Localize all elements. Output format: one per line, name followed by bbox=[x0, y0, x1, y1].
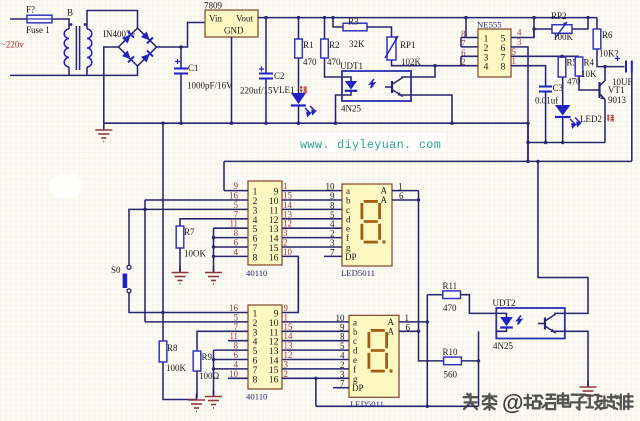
transistor VT1 bbox=[598, 82, 600, 98]
wire RP2 right lead bbox=[572, 18, 588, 29]
svg-text:R7: R7 bbox=[184, 227, 195, 237]
switch S0 bbox=[111, 265, 131, 293]
svg-text:A: A bbox=[381, 186, 388, 196]
wire 40110 second pin10 stub bbox=[228, 377, 248, 379]
wire 40110 second to display row 7 bbox=[282, 377, 349, 379]
wire bottom rail bbox=[316, 405, 479, 407]
wire ground rail bbox=[104, 122, 528, 124]
wire R3 left lead bbox=[333, 18, 343, 27]
node output H1 junction bbox=[526, 160, 529, 163]
svg-text:1: 1 bbox=[512, 56, 516, 66]
ic U3 40110 second body bbox=[248, 305, 282, 389]
ground symbol UDT2 bbox=[580, 381, 597, 399]
bridge diode D4 bbox=[141, 51, 153, 63]
wire primary bottom lead bbox=[68, 67, 70, 75]
wire LED2 bottom lead bbox=[562, 118, 564, 143]
svg-text:R2: R2 bbox=[329, 40, 340, 50]
node R10 right junction bbox=[477, 359, 480, 362]
optocoupler U UDT1 box bbox=[342, 71, 411, 101]
node pin6 riser junction bbox=[417, 330, 420, 333]
wire bridge left vertex to ground rail bbox=[104, 47, 119, 123]
wire chip1-chip2 carry link bbox=[282, 256, 298, 312]
wire 40110 second to display row 4 bbox=[282, 349, 349, 351]
svg-text:R11: R11 bbox=[443, 281, 458, 291]
svg-text:4N25: 4N25 bbox=[493, 341, 513, 351]
wire UDT1 collector bbox=[411, 66, 435, 77]
wire +9V rail from Vout bbox=[258, 17, 597, 19]
wire R7 top to 40110 pin4 row bbox=[180, 219, 248, 226]
wire riser R11 vertical bbox=[426, 295, 428, 407]
node UDT1 collector tap bbox=[433, 64, 436, 67]
wire UDT2 emitter to ground bbox=[565, 331, 588, 386]
node VT1 collector junction bbox=[603, 65, 606, 68]
resistor R3 bbox=[343, 23, 367, 31]
ground symbol chip1 bus bbox=[205, 266, 222, 284]
wire 40110 second to display row 5 bbox=[282, 359, 349, 361]
wire 40110 first pin1 row stub bbox=[224, 190, 248, 192]
svg-text:16: 16 bbox=[269, 252, 279, 263]
wire NE555 output vertical overlap bbox=[527, 123, 529, 161]
node bus dots chip2 bbox=[212, 358, 215, 361]
svg-text:2: 2 bbox=[284, 369, 288, 379]
LED5011 first digit 8 bbox=[361, 200, 382, 244]
wire R1 top lead bbox=[298, 18, 300, 39]
svg-text:100K: 100K bbox=[553, 32, 574, 42]
svg-text:10K?: 10K? bbox=[599, 49, 619, 59]
wire NE555 pin3 output bbox=[511, 47, 528, 161]
svg-text:10K: 10K bbox=[581, 69, 597, 79]
bridge diode D1 bbox=[122, 32, 134, 44]
wire 40110 first to display row 5 bbox=[282, 227, 342, 229]
UDT2 internal transistor bbox=[544, 318, 546, 330]
wire clock line H1 bbox=[224, 160, 632, 162]
svg-text:RP2: RP2 bbox=[551, 11, 567, 21]
svg-text:LED5011: LED5011 bbox=[350, 399, 384, 409]
wire 40110 second to display row 3 bbox=[282, 340, 349, 342]
svg-text:100Ω: 100Ω bbox=[199, 371, 220, 381]
wire H1 to 40110 first clock bbox=[223, 161, 225, 190]
wire R5 to LED2 bbox=[562, 77, 564, 105]
capacitor C2 bbox=[259, 74, 273, 79]
svg-text:B: B bbox=[67, 8, 73, 18]
wire 40110 second to display row 6 bbox=[282, 368, 349, 370]
resistor R4 bbox=[575, 57, 583, 76]
wire 40110 first to display row 1 bbox=[282, 190, 342, 192]
wire DP riser to bottom rail bbox=[315, 378, 317, 406]
svg-text:S0: S0 bbox=[111, 265, 121, 275]
svg-text:Fuse 1: Fuse 1 bbox=[26, 25, 50, 35]
svg-text:8: 8 bbox=[501, 62, 506, 73]
ground symbol main bbox=[95, 124, 112, 142]
wire R4 bottom to VT1 base bbox=[579, 76, 595, 90]
UDT2 internal led bbox=[496, 313, 506, 317]
svg-text:8: 8 bbox=[253, 252, 258, 263]
svg-text:220uf/15V: 220uf/15V bbox=[240, 86, 279, 96]
potentiometer RP1 arrow bbox=[385, 36, 398, 58]
wire 10UF right lead down bbox=[631, 73, 633, 162]
resistor R2 bbox=[321, 39, 329, 58]
node UDT1 emitter junction bbox=[450, 122, 453, 125]
node C2 bottom junction bbox=[264, 122, 267, 125]
wire S0 bottom to 40110 second pin1 row bbox=[129, 293, 248, 313]
svg-text:C1: C1 bbox=[188, 63, 199, 73]
wire LED5011 first pin6 out bbox=[392, 199, 419, 201]
wire C1 bottom lead bbox=[180, 75, 182, 124]
capacitor C1 bbox=[174, 69, 188, 74]
svg-text:A: A bbox=[388, 317, 395, 327]
watermark halo bbox=[296, 133, 446, 152]
node bus dots chip1 bbox=[212, 236, 215, 239]
wire 40110 first to display row 2 bbox=[282, 199, 342, 201]
wire 40110 first to display row 3 bbox=[282, 208, 342, 210]
wire 40110 first pin2 row bbox=[145, 199, 248, 201]
wire R6 top lead bbox=[596, 18, 598, 29]
svg-text:C3: C3 bbox=[553, 83, 564, 93]
wire C2 bottom lead bbox=[265, 80, 267, 124]
svg-text:LED2: LED2 bbox=[580, 114, 602, 124]
wire NE555 pin5 to R5 R4 bbox=[511, 55, 579, 57]
svg-text:10: 10 bbox=[283, 247, 292, 257]
svg-text:40110: 40110 bbox=[246, 268, 268, 278]
node ground rail right junction bbox=[526, 122, 529, 125]
watermark toutiao text bbox=[464, 394, 478, 409]
svg-text:LED5011: LED5011 bbox=[341, 268, 375, 278]
wire C2 top lead bbox=[265, 18, 267, 73]
node R3 tap bbox=[331, 16, 334, 19]
svg-text:@: @ bbox=[502, 390, 523, 415]
svg-text:R4: R4 bbox=[584, 58, 595, 68]
node right riser top bbox=[417, 198, 420, 201]
svg-text:470: 470 bbox=[303, 57, 317, 67]
transformer polarity dots bbox=[70, 23, 73, 26]
node RP2 left junction bbox=[532, 27, 535, 30]
wire NE555 pin1 to C3 bbox=[511, 66, 546, 86]
wire LED5011 second pin1 out bbox=[399, 321, 427, 323]
svg-text:4N25: 4N25 bbox=[341, 104, 361, 114]
svg-text:3: 3 bbox=[517, 37, 522, 47]
wire R10 right lead bbox=[461, 360, 478, 362]
ground symbol R7 bbox=[172, 266, 189, 284]
wire LED5011 second DP stub bbox=[333, 387, 349, 389]
svg-text:Vin: Vin bbox=[209, 14, 222, 24]
svg-text:R10: R10 bbox=[443, 347, 459, 357]
LED5011 second decimal point bbox=[390, 370, 393, 373]
wire NE555 pin4 to +9V bbox=[511, 18, 534, 38]
transformer B core bbox=[76, 26, 79, 70]
wire 40110 second to display row 1 bbox=[282, 321, 349, 323]
UDT2 internal light arrow bbox=[517, 316, 522, 325]
wire VT1 emitter chain bbox=[528, 142, 605, 144]
svg-text:10UF: 10UF bbox=[612, 77, 633, 87]
svg-text:DP: DP bbox=[352, 383, 364, 393]
wire R9 top to 40110 second pin3 row bbox=[197, 331, 248, 351]
node C2 tap bbox=[264, 16, 267, 19]
wire secondary bottom lead bbox=[86, 67, 88, 75]
bridge diode D3 bbox=[122, 50, 134, 62]
wire 40110 first to display row 6 bbox=[282, 237, 342, 239]
UDT1 internal transistor bbox=[391, 81, 393, 93]
svg-text:UDT2: UDT2 bbox=[493, 298, 516, 308]
ic U NE555 body bbox=[478, 29, 511, 77]
display LED5011 second body bbox=[349, 315, 399, 397]
UDT1 internal led bbox=[342, 77, 351, 81]
capacitor 10UF bbox=[626, 61, 632, 73]
svg-text:Vout: Vout bbox=[236, 14, 253, 24]
wire R3 right lead to RP1 bbox=[367, 27, 392, 37]
svg-text:R6: R6 bbox=[602, 30, 613, 40]
wire LED5011 first pin1 out bbox=[392, 190, 419, 192]
resistor R9 bbox=[193, 351, 201, 371]
label LE1 green bbox=[300, 86, 307, 93]
wire R5 top lead bbox=[561, 55, 563, 58]
svg-text:470: 470 bbox=[327, 57, 341, 67]
node collector riser junction bbox=[536, 160, 539, 163]
led LED2 bbox=[555, 105, 571, 116]
bridge rectifier outline bbox=[119, 28, 157, 66]
wire NE555 pin6 stub bbox=[461, 55, 478, 57]
display LED5011 first body bbox=[342, 184, 392, 266]
svg-text:R9: R9 bbox=[202, 352, 213, 362]
wire R2 top lead bbox=[324, 18, 326, 39]
potentiometer RP1 body bbox=[387, 37, 396, 60]
ground symbol chip2 bus bbox=[205, 390, 222, 408]
label LED2 green bbox=[607, 115, 614, 122]
wire NE555 pin7 stub bbox=[461, 46, 478, 48]
wire R1 to LE1 bbox=[298, 58, 300, 93]
node C1 top junction bbox=[179, 45, 182, 48]
node NE555 supply tap bbox=[464, 16, 467, 19]
wire RP1 bottom to NE555 pin2 bbox=[392, 60, 479, 66]
svg-text:4: 4 bbox=[484, 62, 489, 73]
svg-text:470: 470 bbox=[443, 303, 457, 313]
resistor R8 bbox=[159, 341, 167, 362]
wire V1 ground bus vertical bbox=[162, 123, 164, 341]
wire right riser to R10 bbox=[419, 191, 444, 361]
svg-text:GND: GND bbox=[224, 26, 244, 36]
wire mains live input bbox=[10, 18, 27, 20]
bridge diode D2 bbox=[141, 31, 153, 43]
svg-text:UDT1: UDT1 bbox=[340, 61, 363, 71]
wire R11 right to UDT2 anode bbox=[461, 295, 497, 314]
svg-text:A: A bbox=[388, 326, 395, 336]
regulator U 7809 body bbox=[205, 10, 258, 37]
wire UDT1 cathode to ground rail bbox=[336, 95, 343, 123]
wire V2 vertical bbox=[144, 200, 146, 322]
node V1 on pin1 row bbox=[161, 311, 164, 314]
svg-text:100K: 100K bbox=[166, 363, 187, 373]
node pin1 riser junction bbox=[426, 320, 429, 323]
white blob artifact bbox=[49, 174, 83, 199]
svg-text:10: 10 bbox=[229, 369, 238, 379]
svg-text:R8: R8 bbox=[167, 343, 178, 353]
svg-text:C2: C2 bbox=[274, 71, 285, 81]
node LED2 bottom junction bbox=[561, 141, 564, 144]
ic U2 40110 first body bbox=[248, 181, 282, 265]
wire 40110 second pin2 row bbox=[145, 321, 248, 323]
node R1 tap bbox=[297, 16, 300, 19]
resistor R7 bbox=[176, 226, 184, 248]
led LE1 bbox=[291, 93, 306, 104]
wire mains neutral bottom rail bbox=[10, 66, 138, 75]
wire NE555 pin8 supply bbox=[466, 37, 478, 39]
wire R8 bottom lead bbox=[163, 362, 197, 400]
resistor R5 bbox=[558, 57, 566, 77]
wire cathode riser bbox=[478, 331, 480, 406]
node DP riser junction bbox=[314, 377, 317, 380]
svg-text:F?: F? bbox=[26, 5, 35, 15]
wire R9 bottom lead bbox=[196, 371, 198, 398]
optocoupler U UDT2 box bbox=[496, 308, 565, 339]
svg-text:32K: 32K bbox=[349, 39, 365, 49]
svg-text:DP: DP bbox=[345, 252, 357, 262]
wire C3 bottom lead bbox=[545, 93, 547, 143]
transformer B secondary winding bbox=[87, 29, 92, 67]
svg-text:1000pF/16V: 1000pF/16V bbox=[187, 81, 233, 91]
wire LED5011 first DP stub bbox=[324, 255, 342, 257]
svg-text:10OK: 10OK bbox=[184, 249, 206, 259]
svg-text:4: 4 bbox=[234, 247, 239, 257]
ground symbol R8 bbox=[188, 394, 205, 412]
wire 40110 first to display row 7 bbox=[282, 246, 342, 248]
node LE1 bottom junction bbox=[297, 122, 300, 125]
node R5 top tap bbox=[560, 55, 563, 58]
wire UDT1 emitter to ground rail bbox=[411, 95, 452, 123]
node UDT1 cathode junction bbox=[334, 122, 337, 125]
svg-text:0.01uf: 0.01uf bbox=[535, 96, 558, 106]
resistor R10 bbox=[444, 357, 462, 365]
LED5011 first decimal point bbox=[383, 241, 386, 244]
svg-text:560: 560 bbox=[444, 370, 458, 380]
svg-text:www. diyleyuan. com: www. diyleyuan. com bbox=[300, 138, 441, 152]
svg-text:~220v: ~220v bbox=[1, 40, 24, 50]
resistor R1 bbox=[295, 39, 303, 58]
svg-text:R1: R1 bbox=[303, 40, 314, 50]
capacitor C3 bbox=[539, 87, 552, 92]
wire 40110 second pin4 stub bbox=[228, 340, 248, 342]
wire UDT2 collector up bbox=[538, 161, 588, 313]
wire S0 top to 40110 pin3 row bbox=[129, 209, 248, 265]
svg-text:NE555: NE555 bbox=[477, 20, 502, 30]
wire fuse to transformer primary bbox=[52, 19, 69, 29]
wire 40110 first to display row 4 bbox=[282, 218, 342, 220]
resistor R11 bbox=[443, 291, 461, 299]
wire RP2 left lead bbox=[534, 29, 552, 38]
wire bridge right vertex to regulator input bbox=[157, 23, 206, 48]
svg-text:RP1: RP1 bbox=[400, 40, 416, 50]
wire LED5011 second pin6 out bbox=[399, 330, 419, 332]
node C1 bottom junction bbox=[179, 122, 182, 125]
transformer B primary winding bbox=[64, 29, 69, 67]
svg-text:9013: 9013 bbox=[608, 95, 627, 105]
svg-text:16: 16 bbox=[269, 374, 279, 385]
UDT1 internal light arrow bbox=[370, 79, 375, 88]
node emitter chain left junction bbox=[526, 141, 529, 144]
svg-text:8: 8 bbox=[253, 374, 258, 385]
node V2 crossing bbox=[143, 208, 146, 211]
wire R7 bottom lead bbox=[179, 248, 181, 272]
potentiometer RP2 body bbox=[552, 25, 572, 34]
svg-text:A: A bbox=[381, 195, 388, 205]
svg-text:7809: 7809 bbox=[204, 1, 223, 11]
wire C1 top lead bbox=[180, 47, 182, 68]
potentiometer RP2 arrow bbox=[555, 22, 567, 38]
node C3 bottom junction bbox=[544, 141, 547, 144]
wire transformer secondary top to bridge bbox=[87, 11, 138, 30]
node V1 top junction bbox=[161, 122, 164, 125]
wire 40110 second to display row 2 bbox=[282, 330, 349, 332]
wire R11 left lead bbox=[427, 294, 443, 296]
svg-text:40110: 40110 bbox=[246, 392, 268, 402]
node RP2 right rail tap bbox=[586, 16, 589, 19]
wire R6 bottom to VT1 collector and 10UF bbox=[597, 49, 625, 67]
svg-text:R3: R3 bbox=[348, 17, 359, 27]
wire 40110 first pin16 to second counter bbox=[282, 256, 298, 312]
node R2 tap bbox=[323, 16, 326, 19]
wire 40110 second pins 8-6-4 bus bbox=[213, 350, 215, 396]
wire 7809 GND lead bbox=[231, 37, 233, 123]
node riser bottom junction bbox=[426, 405, 429, 408]
wire 40110 first pins 11-8-6-4 bus bbox=[213, 228, 215, 272]
LED5011 second digit 8 bbox=[368, 329, 389, 373]
fuse F? body bbox=[27, 15, 52, 23]
wire LE1 bottom lead bbox=[298, 107, 300, 124]
resistor R6 bbox=[593, 29, 601, 49]
node NE555 pin4 rail tap bbox=[532, 16, 535, 19]
node 7809 GND junction bbox=[230, 122, 233, 125]
wire R2 to UDT1 anode bbox=[325, 58, 343, 77]
